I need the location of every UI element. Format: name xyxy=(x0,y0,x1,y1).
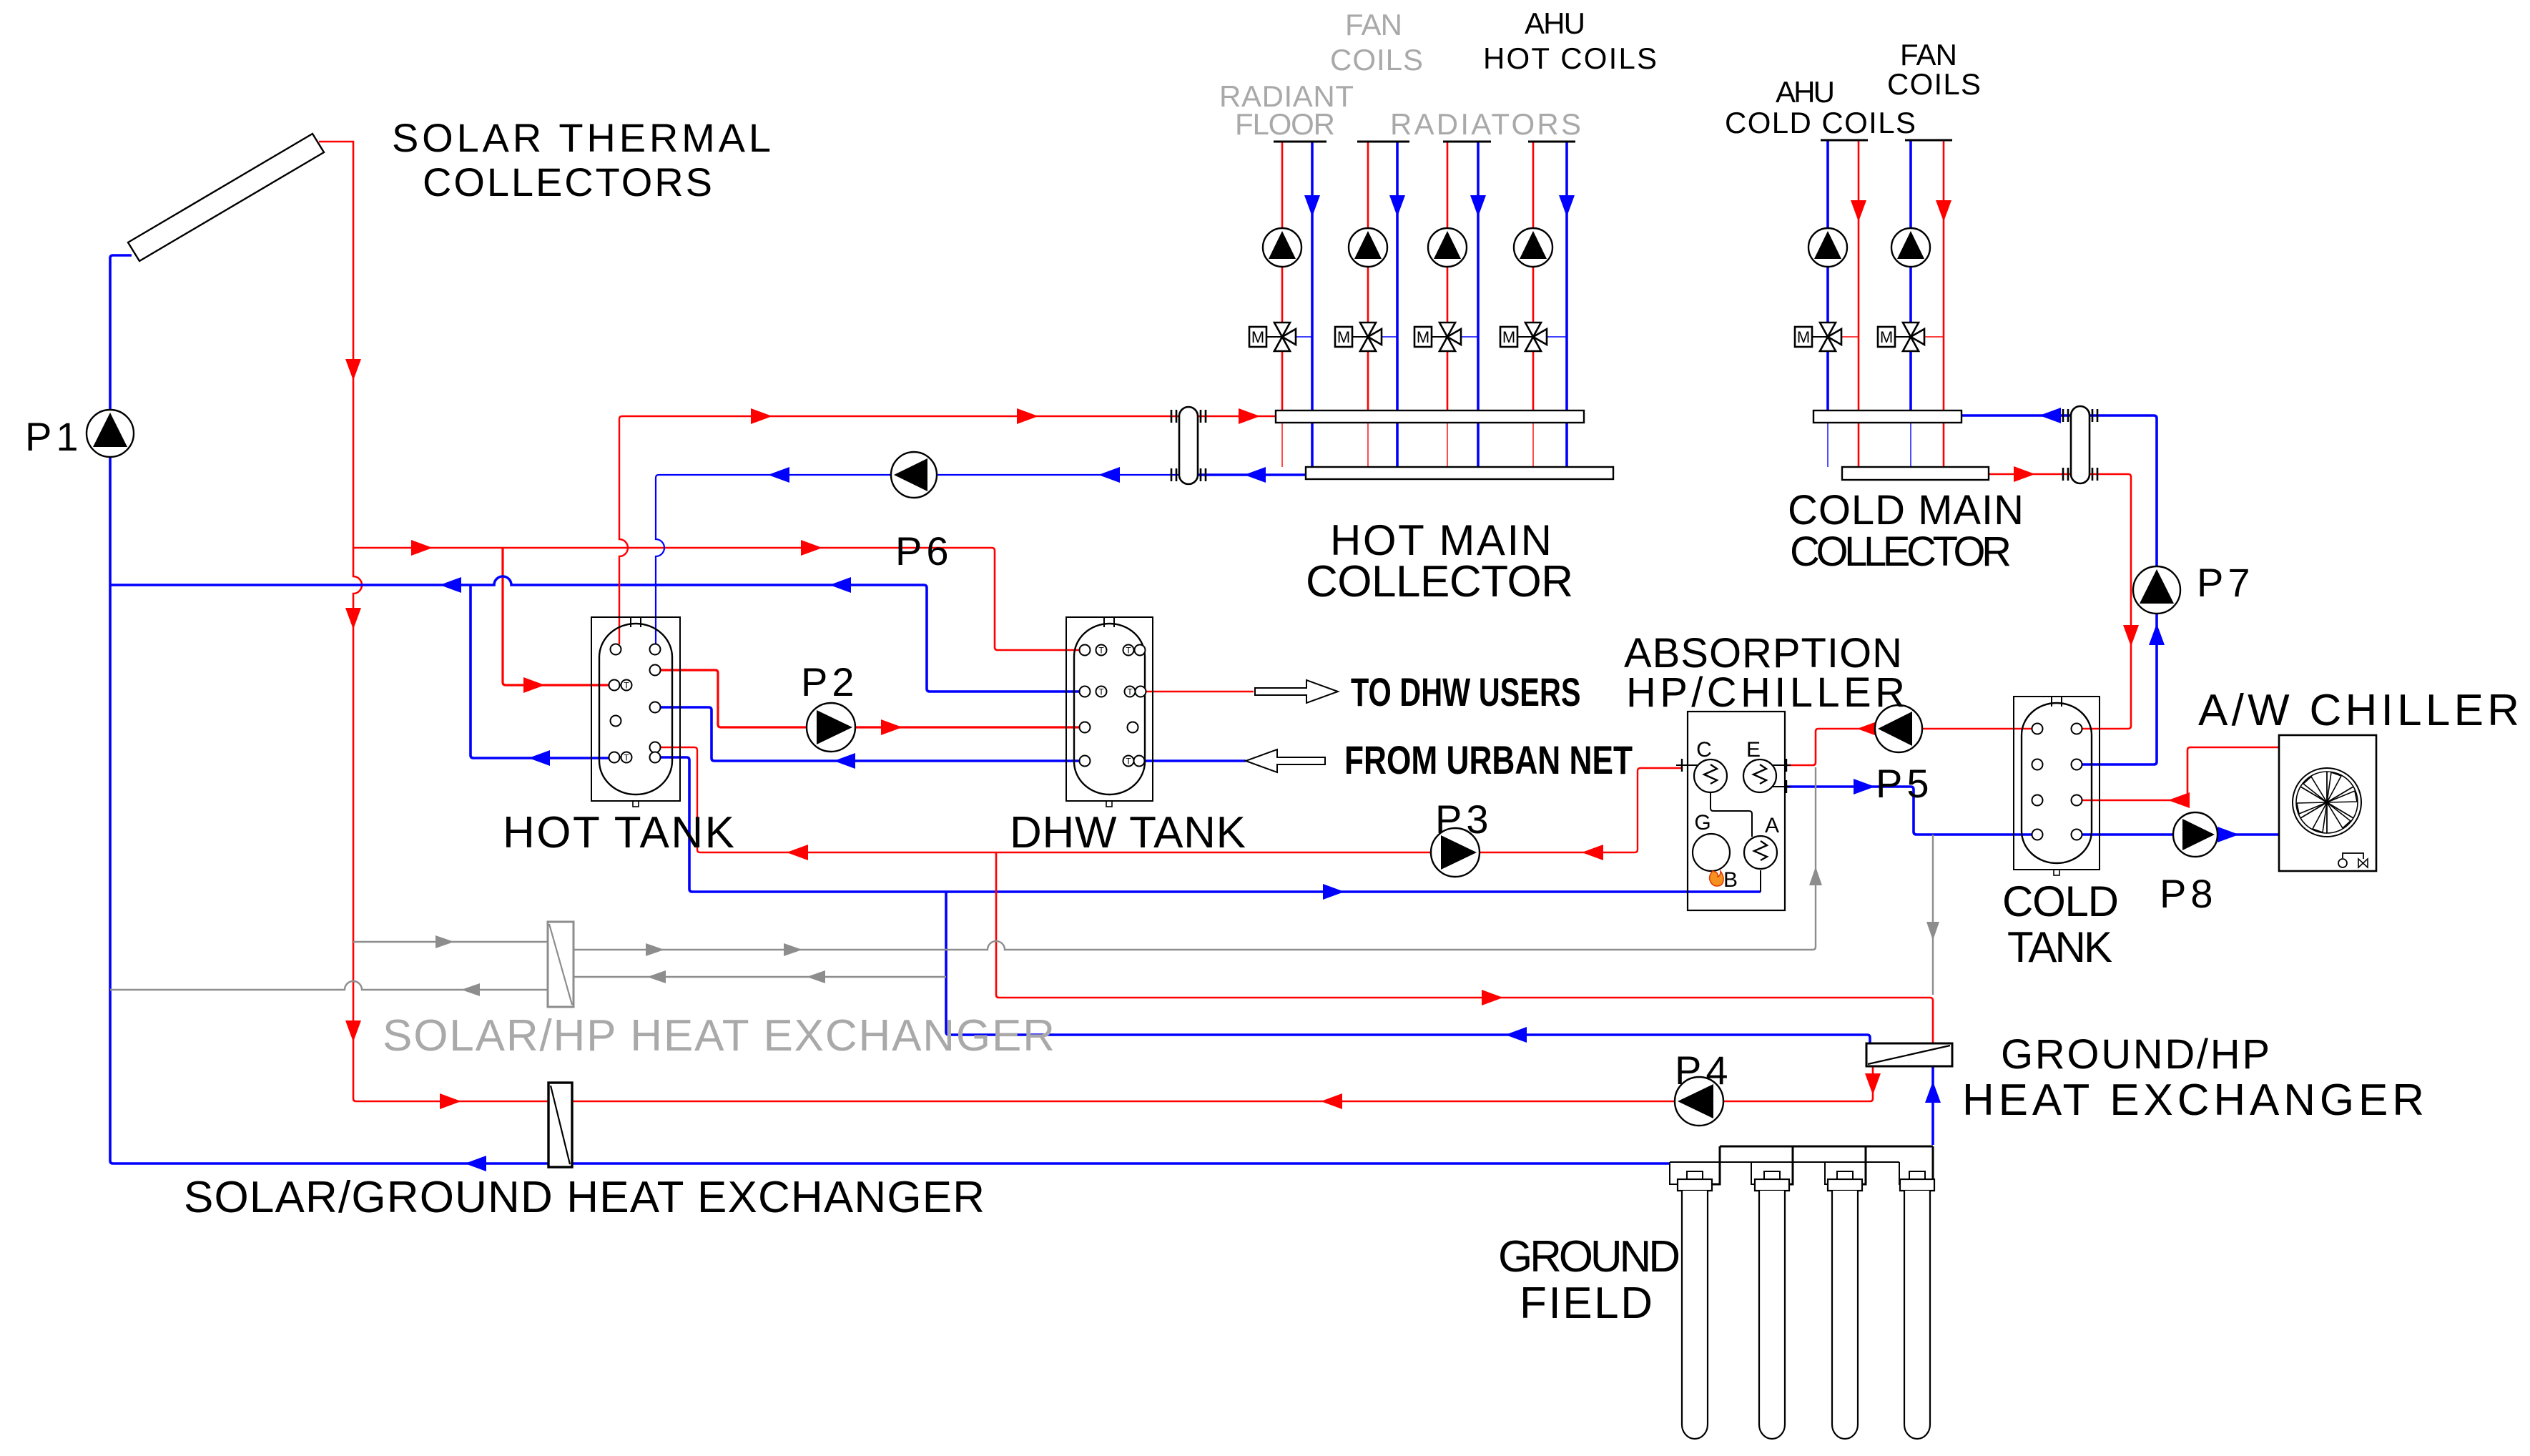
open arrow FROM URBAN NET xyxy=(1246,749,1325,772)
label FAN hot xyxy=(1345,8,1402,41)
svg-text:COLLECTOR: COLLECTOR xyxy=(1790,528,2012,575)
label AHU hot xyxy=(1525,6,1585,40)
absorption generator G xyxy=(1693,811,1730,871)
label P7 xyxy=(2197,560,2255,605)
wire blue return header y=818 xyxy=(110,576,1079,692)
pump cold circuit 1 xyxy=(1808,228,1847,267)
svg-text:T: T xyxy=(1127,687,1133,697)
wire absorption E chilled outlet (blue y=1100) xyxy=(1786,779,2032,835)
wire hot circuit 1 supply (red x=1793) xyxy=(1281,142,1284,467)
svg-text:HOT COILS: HOT COILS xyxy=(1483,41,1657,75)
cold tank ports xyxy=(2032,724,2082,840)
svg-text:T: T xyxy=(624,681,629,691)
svg-text:TO DHW USERS: TO DHW USERS xyxy=(1351,670,1580,715)
svg-text:SOLAR THERMAL: SOLAR THERMAL xyxy=(392,115,771,160)
svg-text:M: M xyxy=(1880,328,1893,346)
solar thermal collector panel xyxy=(128,134,324,261)
terminal bar hot circuit at x=1781 xyxy=(1274,141,1326,143)
label COILS cold xyxy=(1887,67,1981,101)
hot main collector supply bar xyxy=(1276,410,1584,423)
svg-text:SOLAR/GROUND HEAT EXCHANGER: SOLAR/GROUND HEAT EXCHANGER xyxy=(184,1173,985,1222)
svg-text:COLD: COLD xyxy=(2002,877,2119,925)
label COLLECTORS xyxy=(423,159,712,205)
pump P7 xyxy=(2133,566,2180,614)
absorption condenser C xyxy=(1694,738,1727,792)
wire DHW tank to hot tank return (blue y=1064) xyxy=(660,707,1079,769)
solar/ground heat exchanger xyxy=(548,1083,572,1167)
svg-text:COILS: COILS xyxy=(1330,43,1423,77)
label P5 xyxy=(1876,761,1934,806)
label HOT TANK xyxy=(503,808,734,857)
svg-text:P6: P6 xyxy=(895,528,953,574)
wire hot collector bottom bar to separator (blue) xyxy=(1198,467,1306,483)
hot tank xyxy=(591,617,680,807)
wire hot circuit 4 return (blue x=2191) xyxy=(1559,142,1575,467)
label P4 xyxy=(1675,1048,1733,1093)
wire cold circuit 1 supply (blue x=2556) xyxy=(1826,140,1829,467)
svg-text:M: M xyxy=(1502,328,1515,346)
wire hot tank bottom to absorption evaporator (blue y=1242) xyxy=(660,757,1761,900)
ground field borehole 1 xyxy=(1678,1171,1712,1439)
svg-text:FROM URBAN NET: FROM URBAN NET xyxy=(1344,737,1633,782)
wire FROM URBAN NET blue xyxy=(1144,759,1246,762)
pump P2 xyxy=(807,703,855,752)
terminal bar hot circuit at x=2137 xyxy=(1528,141,1575,143)
svg-text:AHU: AHU xyxy=(1525,6,1585,40)
label COLD MAIN xyxy=(1788,487,2024,533)
wire ground HX to ground field (blue below box) xyxy=(1925,1066,1941,1145)
svg-text:TANK: TANK xyxy=(2007,923,2112,971)
wire solar/ground HX hot outlet to P4 loop (red y=1540) xyxy=(440,1066,1881,1109)
pump P5 xyxy=(1875,705,1922,752)
svg-text:M: M xyxy=(1797,328,1810,346)
wire blue drop to hot tank x=658 xyxy=(471,585,609,766)
valve 3-way cold circuit 1 xyxy=(1795,323,1859,351)
label HP/CHILLER xyxy=(1626,669,1905,716)
absorption burner B flame xyxy=(1710,868,1738,892)
wire cold circuit 2 supply (blue x=2672) xyxy=(1909,140,1912,467)
label P3 xyxy=(1435,797,1493,842)
svg-text:GROUND: GROUND xyxy=(1498,1232,1680,1282)
wire hot tank charge drop x=703 xyxy=(503,548,609,693)
label P1 xyxy=(25,414,83,459)
wire solar return (blue main left x=154) xyxy=(110,255,548,1171)
pump hot circuit 1 xyxy=(1263,228,1301,267)
pump hot circuit 3 xyxy=(1428,228,1467,267)
wire cold separator to cold tank top (red) xyxy=(2082,474,2139,729)
valve 3-way hot circuit 1 xyxy=(1249,323,1312,351)
svg-text:COLD MAIN: COLD MAIN xyxy=(1788,487,2024,533)
pump cold circuit 2 xyxy=(1891,228,1930,267)
wire solar/ground HX to ground field (blue y=1627) xyxy=(572,1162,1670,1165)
valve 3-way hot circuit 2 xyxy=(1335,323,1397,351)
svg-text:GROUND/HP: GROUND/HP xyxy=(2001,1031,2270,1078)
wire hot circuit 3 supply (red x=2024) xyxy=(1447,142,1449,467)
wire cold tank to chiller return (red y=1119) xyxy=(2082,747,2279,808)
wire gray supply tap (y=1317) xyxy=(353,935,548,948)
label COLD TANK line1 xyxy=(2002,877,2119,925)
absorption HP/chiller box xyxy=(1676,712,1791,910)
svg-text:DHW TANK: DHW TANK xyxy=(1010,808,1246,857)
svg-text:COLD COILS: COLD COILS xyxy=(1725,106,1916,139)
label GROUND/HP xyxy=(2001,1031,2270,1078)
ground/HP heat exchanger xyxy=(1866,1043,1952,1066)
label FLOOR xyxy=(1235,107,1335,141)
svg-text:FLOOR: FLOOR xyxy=(1235,107,1335,141)
ground field manifolds xyxy=(1670,1146,1933,1184)
svg-text:P1: P1 xyxy=(25,414,83,459)
label COLLECTOR cold xyxy=(1790,528,2012,575)
wire TO DHW USERS red xyxy=(1146,691,1254,693)
valve 3-way hot circuit 3 xyxy=(1414,323,1478,351)
dhw tank ports xyxy=(1080,645,1146,767)
svg-text:A: A xyxy=(1765,814,1779,837)
svg-text:P3: P3 xyxy=(1435,797,1493,842)
pump P4 xyxy=(1675,1077,1723,1126)
wire separator to hot collector bar (red) xyxy=(1198,408,1276,424)
pump P8 xyxy=(2173,812,2218,857)
label HOT MAIN xyxy=(1330,516,1552,564)
wire cold circuit 1 return (red x=2599) xyxy=(1851,140,1866,467)
wire cold collector bottom bar to separator (red y=663) xyxy=(1989,466,2071,482)
wire ground HX hot feed (red y=1395) xyxy=(996,852,1933,1043)
svg-text:T: T xyxy=(624,753,629,763)
ground field borehole 4 xyxy=(1900,1171,1934,1439)
svg-text:P2: P2 xyxy=(801,659,859,704)
label HEAT EXCHANGER ground xyxy=(1962,1076,2424,1125)
wire gray return from blue junction (y=1366) xyxy=(574,970,946,983)
valve 3-way hot circuit 4 xyxy=(1500,323,1567,351)
pump P6 xyxy=(891,452,937,498)
wire hot circuit 4 supply (red x=2144) xyxy=(1532,142,1535,467)
label P6 xyxy=(895,528,953,574)
pump hot circuit 4 xyxy=(1514,228,1552,267)
label DHW TANK xyxy=(1010,808,1246,857)
pump P3 xyxy=(1431,828,1480,877)
svg-text:AHU: AHU xyxy=(1776,75,1835,109)
ground field borehole 2 xyxy=(1755,1171,1789,1439)
wire absorption E to P5 to cold tank (red y=1019) xyxy=(1786,721,2032,765)
svg-text:P5: P5 xyxy=(1876,761,1934,806)
svg-text:COILS: COILS xyxy=(1887,67,1981,101)
wire gray drop from chilled line to ground HX (x=2703) xyxy=(1926,835,1939,995)
svg-text:M: M xyxy=(1337,328,1350,346)
cold main collector separator xyxy=(2063,406,2097,483)
svg-text:RADIATORS: RADIATORS xyxy=(1390,107,1581,141)
wire hot circuit 2 supply (red x=1913) xyxy=(1367,142,1369,467)
wire hot circuit 1 return (blue x=1835) xyxy=(1304,142,1320,467)
label SOLAR/HP HEAT EXCHANGER xyxy=(383,1011,1055,1061)
cold main collector return bar xyxy=(1842,467,1989,480)
svg-text:B: B xyxy=(1723,868,1738,892)
svg-text:HOT TANK: HOT TANK xyxy=(503,808,734,857)
dhw tank xyxy=(1066,617,1153,807)
hot tank ports xyxy=(609,644,661,763)
wire hot tank to absorption generator loop (red y=1192) xyxy=(660,747,1682,860)
label COILS hot xyxy=(1330,43,1423,77)
svg-text:COLLECTOR: COLLECTOR xyxy=(1306,557,1573,606)
absorption evaporator E xyxy=(1743,738,1776,792)
open arrow TO DHW USERS xyxy=(1255,680,1338,703)
wire hot circuit 2 return (blue x=1954) xyxy=(1389,142,1405,467)
svg-text:M: M xyxy=(1417,328,1429,346)
label COLD COILS xyxy=(1725,106,1916,139)
hot main collector return bar xyxy=(1306,467,1613,479)
wire cold collector top bar to separator (blue y=581) xyxy=(1962,408,2071,423)
terminal bar hot circuit at x=2018 xyxy=(1443,141,1491,143)
svg-text:HP/CHILLER: HP/CHILLER xyxy=(1626,669,1905,716)
wire hot tank riser to separator (red x=866 y=582) xyxy=(619,408,1179,644)
label SOLAR/GROUND HEAT EXCHANGER xyxy=(184,1173,985,1222)
svg-text:E: E xyxy=(1746,738,1761,762)
ground field borehole 3 xyxy=(1828,1171,1862,1439)
label P8 xyxy=(2160,871,2218,916)
svg-text:COLLECTORS: COLLECTORS xyxy=(423,159,712,205)
wire cold separator to P7 to cold tank (blue) xyxy=(2082,415,2165,764)
label HOT COILS xyxy=(1483,41,1657,75)
label COLLECTOR hot xyxy=(1306,557,1573,606)
label ABSORPTION xyxy=(1624,630,1902,677)
svg-text:SOLAR/HP HEAT EXCHANGER: SOLAR/HP HEAT EXCHANGER xyxy=(383,1011,1055,1061)
pump P1 xyxy=(87,410,134,457)
wire cold circuit 2 return (red x=2718) xyxy=(1936,140,1951,467)
cold tank xyxy=(2014,697,2100,875)
label GROUND xyxy=(1498,1232,1680,1282)
solar/HP heat exchanger (gray) xyxy=(548,922,574,1007)
svg-text:P7: P7 xyxy=(2197,560,2255,605)
svg-text:G: G xyxy=(1694,811,1711,835)
wire gray supply to absorption burner (y=1328) xyxy=(574,767,1822,956)
absorption absorber A xyxy=(1744,814,1779,869)
svg-text:T: T xyxy=(1098,646,1104,656)
svg-text:T: T xyxy=(1098,687,1104,697)
wire cold tank to P8 to chiller (blue y=1167) xyxy=(2082,827,2279,842)
valve 3-way cold circuit 2 xyxy=(1878,323,1944,351)
pump hot circuit 2 xyxy=(1349,228,1387,267)
A/W chiller unit xyxy=(2279,735,2376,871)
wire solar supply (collector to red riser x=494) xyxy=(319,142,548,1101)
svg-text:T: T xyxy=(1126,646,1131,656)
label AHU cold xyxy=(1776,75,1835,109)
svg-text:M: M xyxy=(1251,328,1264,346)
label SOLAR THERMAL xyxy=(392,115,771,160)
svg-text:FAN: FAN xyxy=(1345,8,1402,41)
cold main collector supply bar xyxy=(1813,410,1962,423)
wire ground loop feed (blue x=1323 y=1447) xyxy=(946,892,1870,1043)
label FROM URBAN NET xyxy=(1344,737,1633,782)
label P2 xyxy=(801,659,859,704)
label RADIANT xyxy=(1219,79,1354,113)
label TO DHW USERS xyxy=(1351,670,1580,715)
wire hot tank to P2 to DHW tank (red y=1017) xyxy=(660,670,1080,735)
svg-text:FAN: FAN xyxy=(1900,38,1957,72)
label COLD TANK line2 xyxy=(2007,923,2112,971)
wire gray return to solar line (y=1384) xyxy=(110,981,548,996)
wire hot circuit 3 return (blue x=2067) xyxy=(1470,142,1486,467)
svg-text:P8: P8 xyxy=(2160,871,2218,916)
wire hot supply header y=766 xyxy=(353,540,1080,650)
wire hot return separator to P6 to tank (blue y=664) xyxy=(656,467,1179,644)
terminal bar hot circuit at x=1898 xyxy=(1357,141,1409,143)
label FAN cold xyxy=(1900,38,1957,72)
svg-text:P4: P4 xyxy=(1675,1048,1733,1093)
terminal bar cold circuit at x=2546 xyxy=(1821,139,1868,142)
svg-text:C: C xyxy=(1696,738,1712,762)
terminal bar cold circuit at x=2664 xyxy=(1905,139,1952,142)
hot main collector separator xyxy=(1171,407,1206,484)
svg-text:FIELD: FIELD xyxy=(1520,1279,1653,1328)
label RADIATORS xyxy=(1390,107,1581,141)
label FIELD xyxy=(1520,1279,1653,1328)
svg-text:T: T xyxy=(1126,757,1131,767)
label A/W CHILLER xyxy=(2198,686,2519,735)
